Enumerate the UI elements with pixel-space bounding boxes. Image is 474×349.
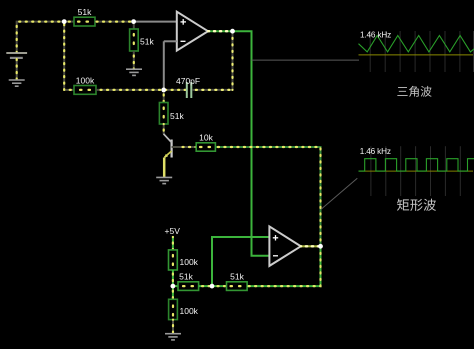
scope 1 zero baseline xyxy=(359,54,474,56)
ground below R2 xyxy=(126,69,142,75)
op-amp U2 xyxy=(269,226,300,266)
wire transistor emitter to ground xyxy=(163,158,166,178)
svg-text:51k: 51k xyxy=(140,37,154,47)
wire R4 to corner and down to node E xyxy=(215,147,320,246)
wire node A to resistor R1 xyxy=(64,21,74,23)
wire node F down to resistor R9 xyxy=(172,286,174,299)
wire node A down xyxy=(63,22,65,90)
scope 2 gridlines xyxy=(371,146,460,196)
resistor R3 100k xyxy=(74,76,96,95)
capacitor C1 470pF xyxy=(176,76,200,98)
wire battery top to rail corner xyxy=(16,22,18,52)
ground below transistor xyxy=(156,177,172,183)
scope 2 zero baseline xyxy=(359,170,474,172)
wire U2 output to node E xyxy=(301,245,321,247)
node E xyxy=(318,244,323,249)
svg-text:100k: 100k xyxy=(180,257,199,267)
svg-text:51k: 51k xyxy=(170,111,184,121)
battery V1 xyxy=(6,53,27,80)
svg-text:+5V: +5V xyxy=(165,226,181,236)
wire node G up to op-amp U2 + input xyxy=(212,237,269,286)
ground below R9 xyxy=(165,334,181,340)
wire R6 to node F xyxy=(172,270,174,286)
wire R3 to node C xyxy=(96,89,164,91)
svg-text:100k: 100k xyxy=(180,306,199,316)
svg-text:100k: 100k xyxy=(76,76,95,86)
svg-text:1.46 kHz: 1.46 kHz xyxy=(360,147,391,156)
resistor R7 51k xyxy=(178,272,199,291)
wire R5 to transistor collector xyxy=(163,124,165,134)
wire U1 - input stub xyxy=(164,41,177,90)
svg-text:51k: 51k xyxy=(78,7,92,17)
resistor R2 51k vertical xyxy=(130,22,155,69)
wire node C to capacitor C1 xyxy=(164,89,186,91)
node B xyxy=(131,19,136,24)
resistor R6 100k vertical xyxy=(169,250,199,270)
node C xyxy=(161,88,166,93)
scope 1 gridlines xyxy=(370,31,473,72)
svg-text:51k: 51k xyxy=(230,272,244,282)
svg-text:470pF: 470pF xyxy=(176,76,200,86)
resistor R8 51k xyxy=(227,272,248,291)
wire +5V supply down to R6 xyxy=(165,226,181,250)
wire node B to op-amp U1 + input xyxy=(134,21,177,23)
transistor Q1 xyxy=(164,134,172,158)
svg-text:10k: 10k xyxy=(199,133,213,143)
svg-text:1.46 kHz: 1.46 kHz xyxy=(360,31,391,40)
wire node F to resistor R7 xyxy=(173,285,178,287)
wire node D right then long vertical down xyxy=(233,31,270,256)
resistor R9 100k vertical xyxy=(169,299,199,319)
resistor R1 51k xyxy=(74,7,95,26)
ground below battery xyxy=(9,80,25,86)
wire C1 right plate to feedback corner xyxy=(192,89,232,91)
node D xyxy=(230,29,235,34)
wire R9 to ground xyxy=(172,320,174,334)
wire transistor base to resistor R4 xyxy=(172,146,197,148)
scope probe line square scope xyxy=(321,178,357,209)
node G xyxy=(210,284,215,289)
scope 2 caption 矩形波 xyxy=(397,199,436,211)
node A xyxy=(62,19,67,24)
scope 1 caption 三角波 xyxy=(397,86,431,97)
wire R1 to node B xyxy=(95,21,134,23)
resistor R5 51k vertical xyxy=(159,103,184,125)
scope 1 triangle waveform xyxy=(359,36,474,52)
op-amp U1 xyxy=(177,12,208,51)
svg-text:51k: 51k xyxy=(179,272,193,282)
scope probe line triangle scope xyxy=(252,59,360,61)
wire node G to resistor R8 xyxy=(212,285,227,287)
wire U1 output to node D xyxy=(208,30,233,32)
scope 2 square waveform xyxy=(359,159,474,171)
wire R7 to node G xyxy=(199,285,212,287)
wire feedback vertical up to output node xyxy=(232,31,234,90)
node F xyxy=(171,284,176,289)
resistor R4 10k xyxy=(196,133,215,152)
wire top rail to node A xyxy=(16,21,64,23)
wire R8 to comparator output corner xyxy=(247,246,320,286)
wire corner to resistor R3 xyxy=(64,89,74,91)
wire node C down to resistor R5 xyxy=(163,90,165,103)
